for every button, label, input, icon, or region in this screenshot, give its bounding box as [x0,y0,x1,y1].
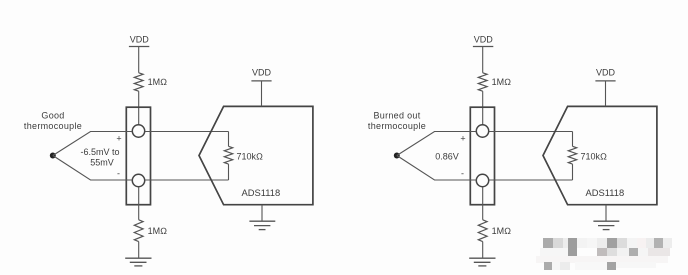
wire ADC bottom to ground [605,205,607,222]
wire R2a to connector [482,91,484,125]
resistor R2b 1M ohm (bottom bias) [478,220,487,242]
power VDD (ADC supply, circuit 1) [251,68,271,81]
svg-text:ADS1118: ADS1118 [242,187,281,198]
svg-text:ADS1118: ADS1118 [586,187,625,198]
wire R1b to ground [138,242,140,259]
wire internal resistor bottom lead [228,164,230,180]
ground (ADC, circuit 1) [249,221,275,229]
power VDD (ADC supply, circuit 2) [595,68,615,81]
wire internal resistor top lead [572,132,574,147]
svg-text:-: - [117,169,120,179]
svg-text:VDD: VDD [252,68,272,78]
wire connector to R1b [138,187,140,220]
svg-text:VDD: VDD [474,35,494,45]
power VDD rail (top, circuit 1) [129,35,149,47]
svg-text:710kΩ: 710kΩ [237,151,264,161]
thermocouple TC2 - leg wire [397,156,477,181]
wire - input to ADC internal node [145,179,229,181]
wire internal resistor bottom lead [572,164,574,180]
wire VDD to ADC top [261,81,263,107]
svg-text:1MΩ: 1MΩ [148,77,168,87]
wire - input to ADC internal node [489,179,573,181]
ground (ADC, circuit 2) [593,221,619,229]
pin 2 circle (- input) of J1 [132,174,144,186]
svg-text:1MΩ: 1MΩ [492,226,512,236]
connector block J1 [126,107,150,205]
resistor R1b 1M ohm (bottom bias) [134,220,143,242]
ADC U2 ADS1118 body outline [543,106,657,204]
thermocouple TC2 junction dot [394,153,400,159]
thermocouple TC1 + leg wire [53,132,133,156]
wire + input to ADC internal node [145,131,229,133]
wire + input to ADC internal node [489,131,573,133]
svg-text:1MΩ: 1MΩ [148,226,168,236]
svg-text:710kΩ: 710kΩ [581,151,608,161]
resistor 710k ohm internal (U1) [224,146,232,164]
thermocouple TC1 - leg wire [53,156,133,181]
svg-text:+: + [116,134,121,144]
ground (bias divider, circuit 1) [125,258,151,266]
svg-text:-: - [461,169,464,179]
svg-text:1MΩ: 1MΩ [492,77,512,87]
svg-text:VDD: VDD [130,35,150,45]
wire VDD to R1a [138,47,140,73]
power VDD rail (top, circuit 2) [473,35,493,47]
wire ADC bottom to ground [261,205,263,222]
svg-text:Burned outthermocouple: Burned outthermocouple [368,111,426,131]
wire VDD to R2a [482,47,484,73]
connector block J2 [470,107,494,205]
ground (bias divider, circuit 2) [469,258,495,266]
pin 2 circle (- input) of J2 [476,174,488,186]
resistor 710k ohm internal (U2) [568,146,576,164]
thermocouple TC2 + leg wire [397,132,477,156]
pin 1 circle (+ input) of J2 [476,125,488,137]
pin 1 circle (+ input) of J1 [132,125,144,137]
wire R1a to connector [138,91,140,125]
watermark (pixelated mosaic, decorative blocks bottom right) [536,238,672,270]
wire R2b to ground [482,242,484,259]
wire connector to R2b [482,187,484,220]
resistor R1a 1M ohm (top bias) [134,73,143,91]
svg-text:0.86V: 0.86V [435,151,459,161]
svg-text:VDD: VDD [596,68,616,78]
wire VDD to ADC top [605,81,607,107]
resistor R2a 1M ohm (top bias) [478,73,487,91]
wire internal resistor top lead [228,132,230,147]
thermocouple TC1 junction dot [50,153,56,159]
svg-text:+: + [460,134,465,144]
ADC U1 ADS1118 body outline [199,106,313,204]
